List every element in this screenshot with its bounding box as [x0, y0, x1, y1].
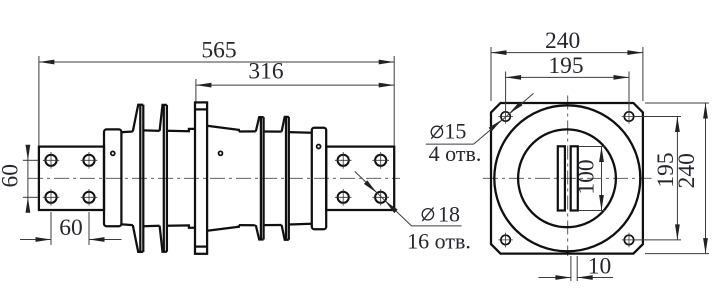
bolt hole left bar 3	[43, 189, 60, 206]
svg-text:16 отв.: 16 отв.	[407, 229, 471, 254]
outer shed circle	[494, 105, 640, 251]
dimension line 10	[539, 275, 614, 280]
dimension line 240 right	[703, 103, 708, 254]
body surface top 3	[239, 130, 256, 132]
extension lines 565	[39, 56, 394, 146]
svg-text:10: 10	[588, 254, 612, 280]
extension lines vertical 60	[23, 160, 39, 197]
vent hole on cone	[219, 151, 223, 155]
dimension line 195 right	[675, 117, 680, 240]
svg-text:60: 60	[59, 215, 83, 241]
body surface top 2	[143, 129, 159, 132]
svg-text:240: 240	[545, 28, 580, 54]
collar step bottom	[167, 225, 195, 227]
body surface top 5	[289, 131, 312, 134]
shed 3	[256, 117, 264, 239]
dimension line 100	[599, 147, 604, 211]
leader diameter 18	[355, 171, 462, 226]
extension lines 100	[579, 147, 606, 211]
dimension line 240 top	[491, 50, 643, 55]
body surface bottom 1	[121, 223, 132, 226]
diameter symbol 18	[422, 208, 433, 222]
extension lines 195 top	[506, 72, 629, 111]
flange corner hole 1	[498, 109, 513, 124]
shed 4	[282, 117, 289, 240]
bolt hole right bar 3	[335, 189, 352, 206]
body surface bottom 2	[143, 225, 159, 228]
extension lines 240 top	[491, 47, 643, 101]
flange corner hole 3	[498, 233, 513, 248]
dimension line 565	[39, 60, 394, 65]
centerline of side view	[28, 177, 400, 179]
right terminal bar	[326, 147, 394, 210]
left terminal bar	[39, 147, 104, 210]
cone top	[207, 126, 239, 132]
body surface bottom 3	[239, 224, 256, 226]
extension lines 10	[571, 256, 577, 281]
horizontal centerline of flange view	[483, 177, 652, 179]
diameter symbol 15	[431, 125, 442, 139]
terminal bar cross-section left	[558, 146, 565, 210]
shed 2	[160, 105, 167, 252]
body surface bottom 5	[289, 223, 312, 226]
svg-text:240: 240	[674, 153, 700, 188]
bolt hole right bar 2	[372, 152, 389, 169]
dimension line 195 top	[506, 75, 629, 80]
dimension line horizontal 60	[20, 237, 122, 242]
body surface top 1	[121, 130, 132, 133]
bolt hole left bar 2	[81, 152, 98, 169]
leader diameter 15	[426, 93, 534, 144]
extension lines 240 right	[645, 103, 709, 254]
dimension line 316	[196, 83, 394, 88]
svg-text:316: 316	[248, 59, 284, 85]
flange corner hole 4	[622, 233, 637, 248]
vertical centerline of flange view	[567, 96, 569, 257]
svg-text:195: 195	[548, 53, 583, 79]
bolt hole right bar 1	[335, 152, 352, 169]
body surface bottom 4	[264, 224, 282, 226]
bolt hole right bar 4	[372, 189, 389, 206]
bolt hole left bar 4	[81, 189, 98, 206]
body surface top 4	[264, 130, 282, 132]
left end cap	[104, 129, 121, 226]
vent hole on left cap	[111, 151, 115, 155]
vent hole on right cap	[317, 145, 321, 149]
svg-text:100: 100	[574, 159, 600, 194]
svg-text:4 отв.: 4 отв.	[429, 141, 482, 166]
extension line 316	[195, 79, 197, 102]
shed 1	[133, 105, 144, 252]
terminal bar cross-section right	[571, 146, 578, 210]
bolt hole left bar 1	[43, 152, 60, 169]
extension lines 195 right	[634, 117, 681, 240]
square flange outline	[491, 103, 643, 254]
svg-text:18: 18	[438, 202, 460, 227]
svg-text:60: 60	[0, 164, 24, 188]
right end cap	[312, 128, 326, 230]
mounting flange plate side view	[195, 102, 207, 253]
flange corner hole 2	[622, 109, 637, 124]
cone bottom	[207, 225, 239, 231]
svg-text:565: 565	[201, 38, 236, 64]
collar step top	[167, 129, 195, 131]
dimension line vertical 60	[26, 145, 31, 213]
extension lines horizontal 60	[51, 212, 89, 245]
inner body circle	[518, 129, 616, 227]
